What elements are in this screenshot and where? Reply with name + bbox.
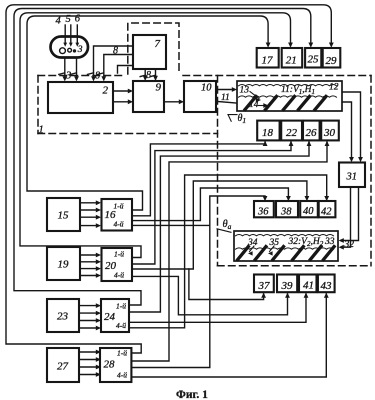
wire 11: block 10 to antenna block upper bbox=[216, 89, 234, 91]
tick on wire a bbox=[59, 73, 65, 75]
svg-text:27: 27 bbox=[57, 361, 69, 373]
wavy line upper, block 11 bbox=[239, 85, 337, 86]
block 16 bbox=[102, 199, 133, 231]
svg-text:4-й: 4-й bbox=[114, 271, 124, 280]
svg-text:11: 11 bbox=[221, 93, 230, 103]
svg-text:θ1: θ1 bbox=[238, 113, 247, 125]
wire: block 2 to block 9 upper bbox=[113, 90, 130, 92]
wires: block 27 to 28 (4 arrows) bbox=[80, 351, 98, 353]
block 24 bbox=[101, 299, 129, 332]
wire: block 7 to block 9 left bbox=[144, 69, 146, 79]
svg-text:32: 32 bbox=[344, 240, 355, 250]
svg-text:11:V1,H1: 11:V1,H1 bbox=[281, 85, 315, 96]
tick on 7-9 wire left bbox=[140, 75, 145, 76]
wavy line upper, block 32 bbox=[236, 235, 334, 236]
svg-text:1-й: 1-й bbox=[117, 349, 127, 358]
antenna block 11 (V1,H1) outline bbox=[237, 81, 342, 111]
svg-text:12: 12 bbox=[329, 83, 339, 93]
dashed boundary: middle vertical bbox=[217, 76, 219, 266]
wire: antenna block 1 to block 31 (outer) bbox=[342, 92, 361, 160]
wire 32: block 31 to antenna block 2 (lower) bbox=[341, 187, 351, 247]
oval contact circle large bbox=[60, 48, 66, 54]
svg-text:1-й: 1-й bbox=[114, 202, 124, 211]
svg-text:22: 22 bbox=[286, 127, 298, 139]
svg-text:37: 37 bbox=[258, 280, 271, 292]
svg-text:1-й: 1-й bbox=[114, 250, 124, 259]
dashed boundary: left edge of box 1 bbox=[37, 76, 39, 134]
wire net: block 24 output 1 to riser and box 25 bbox=[14, 9, 311, 306]
tick on wire 8 outer bbox=[88, 73, 94, 75]
wires: block 15 to 16 (4 arrows) bbox=[80, 202, 98, 204]
svg-text:34: 34 bbox=[247, 238, 258, 248]
sensor oval 3 bbox=[51, 37, 89, 58]
box 39 bbox=[277, 275, 297, 293]
svg-text:4-й: 4-й bbox=[117, 371, 127, 380]
label 34 pointer arrow bbox=[250, 246, 255, 252]
svg-text:25: 25 bbox=[308, 54, 320, 66]
svg-text:5: 5 bbox=[66, 14, 71, 25]
wire net: junction to box 37 bbox=[189, 269, 264, 300]
svg-text:10: 10 bbox=[201, 83, 212, 94]
svg-text:33: 33 bbox=[324, 237, 335, 247]
wire net: block 20 output 4 to box 39 bbox=[132, 276, 288, 314]
wire: block 2 to block 9 lower bbox=[113, 101, 130, 103]
wire: block 16 output 4 junction stub bbox=[132, 224, 210, 226]
wire net 8: block 7 left to block 2 (outer) bbox=[94, 46, 134, 79]
box 43 bbox=[318, 275, 335, 293]
wire net: block 28 output 4 to box 43 bbox=[131, 294, 326, 377]
svg-text:40: 40 bbox=[303, 206, 314, 217]
wire: input 6 into sensor oval bbox=[76, 25, 78, 44]
block 23 bbox=[47, 299, 79, 332]
svg-text:18: 18 bbox=[262, 127, 274, 139]
svg-text:29: 29 bbox=[326, 55, 338, 67]
tick on wire 8 inner bbox=[98, 73, 104, 75]
svg-text:38: 38 bbox=[280, 207, 292, 218]
svg-text:14: 14 bbox=[249, 100, 259, 110]
wire: oval output b into block 2 bbox=[76, 58, 78, 80]
box 21 bbox=[282, 48, 303, 68]
box 37 bbox=[254, 275, 274, 293]
box 40 bbox=[300, 201, 318, 217]
box 42 bbox=[319, 201, 336, 217]
oval contact dot bbox=[74, 50, 76, 52]
dashed boundary: right vertical bbox=[370, 76, 372, 266]
svg-text:26: 26 bbox=[306, 127, 318, 139]
wavy line lower, block 32 bbox=[236, 248, 334, 249]
svg-text:28: 28 bbox=[104, 359, 116, 371]
dashed boundary: bottom right horizontal bbox=[218, 265, 372, 267]
svg-text:8: 8 bbox=[113, 46, 118, 57]
tick on wire b bbox=[71, 73, 77, 75]
block 31 bbox=[339, 163, 365, 188]
svg-text:17: 17 bbox=[262, 55, 274, 67]
svg-text:41: 41 bbox=[303, 280, 314, 292]
block 19 bbox=[47, 247, 80, 280]
svg-text:Фиг. 1: Фиг. 1 bbox=[176, 389, 208, 400]
antenna block 32 (V2,H2) outline bbox=[234, 231, 338, 261]
wire net: block 16 output 1 to riser and box 17 bbox=[27, 16, 268, 210]
svg-text:8: 8 bbox=[95, 70, 100, 81]
svg-text:7: 7 bbox=[155, 38, 161, 50]
box 26 bbox=[303, 121, 320, 141]
svg-text:32:V2,H2: 32:V2,H2 bbox=[288, 237, 324, 248]
wires: block 19 to 20 (4 arrows) bbox=[80, 254, 98, 256]
svg-text:1: 1 bbox=[39, 125, 44, 136]
wire: oval output a into block 2 bbox=[64, 58, 66, 80]
block 9 bbox=[133, 81, 164, 112]
svg-text:15: 15 bbox=[58, 210, 70, 222]
svg-text:6: 6 bbox=[75, 14, 81, 25]
hatch bars block 11 bbox=[245, 96, 256, 109]
wire net: block 28 output 1 to riser and box 29 bbox=[6, 5, 331, 353]
wavy line lower, block 11 bbox=[239, 96, 337, 97]
block 2 bbox=[48, 82, 113, 113]
svg-text:36: 36 bbox=[257, 207, 269, 218]
block 15 bbox=[47, 198, 80, 231]
hatch bars block 32 bbox=[238, 247, 249, 260]
svg-text:35: 35 bbox=[269, 238, 280, 248]
svg-text:30: 30 bbox=[323, 127, 336, 139]
wire net: block 28 output 3 to box 36 bbox=[131, 196, 265, 368]
wire net: block 16 output 3 to box 38 bbox=[132, 188, 288, 221]
svg-text:39: 39 bbox=[281, 280, 294, 292]
svg-text:3: 3 bbox=[77, 45, 83, 55]
wire jog below block 7 bbox=[118, 66, 134, 74]
box 41 bbox=[299, 275, 317, 293]
svg-text:21: 21 bbox=[286, 55, 297, 67]
svg-text:θa: θa bbox=[223, 219, 232, 231]
tick on 7-9 wire right bbox=[151, 75, 156, 76]
dashed boundary: top horizontal left part bbox=[38, 75, 122, 77]
block 7 bbox=[133, 35, 166, 69]
wire: input 4 into sensor oval bbox=[64, 25, 66, 44]
wire net: block 16 output 2 to box 18 bbox=[132, 142, 265, 216]
block 10 bbox=[184, 81, 216, 112]
box 38 bbox=[276, 201, 298, 217]
svg-text:4-й: 4-й bbox=[114, 220, 124, 229]
svg-text:3: 3 bbox=[65, 70, 71, 81]
angle mark theta 1 bbox=[228, 115, 237, 122]
svg-text:42: 42 bbox=[321, 207, 332, 218]
box 22 bbox=[281, 121, 302, 141]
wire: block 7 to block 9 right bbox=[155, 69, 157, 79]
svg-text:13: 13 bbox=[240, 86, 250, 96]
label 35 pointer arrow bbox=[270, 246, 275, 252]
oval contact circle small bbox=[68, 48, 72, 52]
block 20 bbox=[102, 248, 133, 281]
dashed boundary: top horizontal right part bbox=[183, 75, 371, 77]
wire net: block 28 output 2 to box 30 bbox=[131, 142, 327, 361]
wire 11: block 10 to antenna block lower bbox=[216, 101, 244, 103]
block 28 bbox=[100, 348, 131, 382]
svg-text:4-й: 4-й bbox=[116, 321, 126, 330]
box 36 bbox=[254, 201, 274, 217]
wire: block 31 to antenna block 2 (upper) bbox=[341, 187, 359, 241]
svg-text:8: 8 bbox=[146, 70, 151, 81]
svg-text:43: 43 bbox=[321, 280, 333, 292]
svg-text:2: 2 bbox=[103, 85, 109, 97]
wire net: block 20 output 2 to box 22 bbox=[132, 142, 291, 264]
box 30 bbox=[321, 121, 339, 141]
wire net: block 20 output 1 to riser and box 21 bbox=[20, 13, 291, 258]
wire net: block 24 output 4 to box 42 bbox=[129, 175, 327, 328]
dashed boundary: bottom edge of box 1 bbox=[38, 133, 218, 135]
svg-text:9: 9 bbox=[156, 82, 162, 94]
svg-text:4: 4 bbox=[56, 16, 62, 27]
angle mark theta a bbox=[217, 229, 231, 233]
box 18 bbox=[257, 121, 279, 141]
wire net 8: block 7 to block 2 (inner) bbox=[104, 55, 133, 80]
svg-text:31: 31 bbox=[346, 172, 358, 183]
svg-text:23: 23 bbox=[57, 311, 69, 323]
box 25 bbox=[305, 48, 321, 68]
wire net: block 24 output 2 to box 26 bbox=[129, 142, 309, 312]
wire: antenna block 1 to block 31 (inner) bbox=[342, 102, 352, 160]
box 17 bbox=[257, 48, 279, 68]
wires: block 23 to 24 (4 arrows) bbox=[80, 305, 98, 307]
wire net: block 20 output 3 to box 40 bbox=[132, 181, 307, 269]
dashed enclosure around block 7 bbox=[128, 23, 179, 74]
svg-text:24: 24 bbox=[104, 311, 116, 323]
svg-text:1-й: 1-й bbox=[116, 302, 126, 311]
wire net: block 24 output 4 to box 41 bbox=[129, 294, 306, 322]
block 27 bbox=[47, 348, 79, 382]
wire: block 9 to block 10 bbox=[164, 101, 181, 103]
svg-text:19: 19 bbox=[58, 259, 70, 271]
box 29 bbox=[323, 48, 341, 68]
label 14 pointer arrow bbox=[259, 105, 267, 107]
label 13 pointer arrow bbox=[250, 92, 259, 99]
wire: input 5 into sensor oval bbox=[70, 25, 72, 44]
